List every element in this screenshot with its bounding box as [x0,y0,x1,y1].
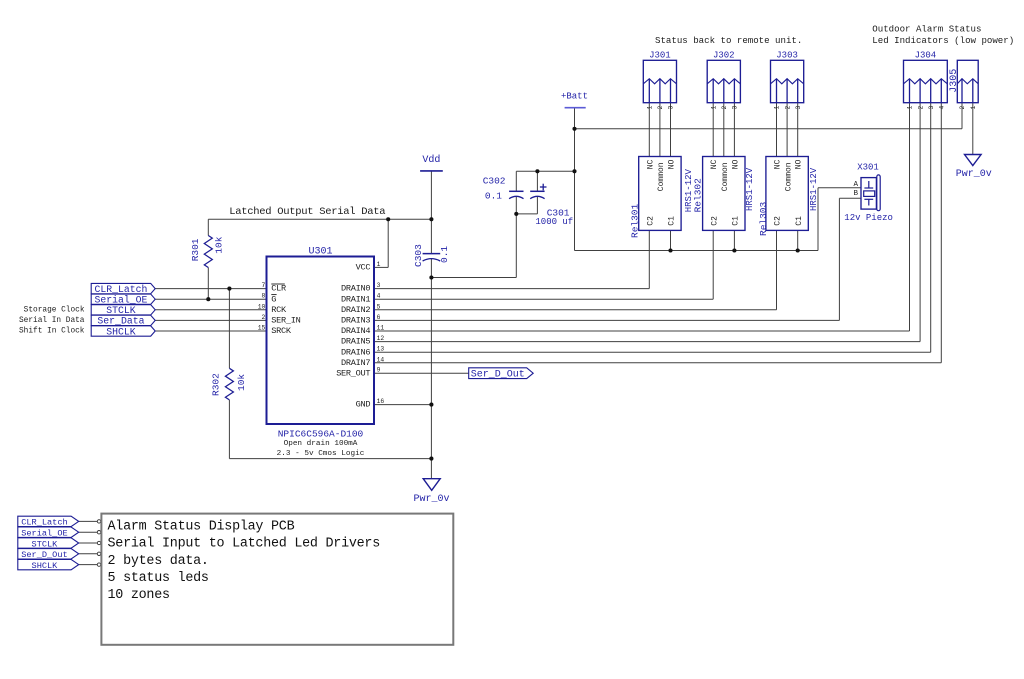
svg-text:STCLK: STCLK [32,539,59,549]
svg-text:16: 16 [377,398,385,405]
svg-text:NO: NO [795,159,804,169]
svg-text:G: G [271,294,276,304]
svg-text:R301: R301 [190,238,201,261]
svg-text:R302: R302 [210,373,221,396]
svg-text:3: 3 [928,106,935,110]
svg-text:NO: NO [668,159,677,169]
svg-text:2.3 - 5v Cmos Logic: 2.3 - 5v Cmos Logic [277,450,365,458]
svg-text:DRAIN2: DRAIN2 [341,305,370,315]
svg-text:2: 2 [917,106,924,110]
svg-text:6: 6 [377,314,381,321]
svg-text:C303: C303 [413,244,424,267]
svg-text:8: 8 [262,293,266,300]
svg-text:J303: J303 [776,51,798,61]
svg-text:2: 2 [657,106,664,110]
svg-text:HRS1-12V: HRS1-12V [809,167,819,211]
svg-text:DRAIN7: DRAIN7 [341,358,370,368]
svg-text:12: 12 [377,335,385,342]
svg-text:DRAIN0: DRAIN0 [341,284,370,294]
svg-text:Shift In Clock: Shift In Clock [19,327,85,335]
svg-text:DRAIN3: DRAIN3 [341,316,370,326]
svg-text:Storage Clock: Storage Clock [24,307,85,315]
svg-text:4: 4 [939,106,946,110]
svg-text:2: 2 [262,314,266,321]
svg-text:1: 1 [970,106,977,110]
svg-text:Rel302: Rel302 [692,178,703,213]
svg-text:Common: Common [784,162,793,191]
svg-text:SRCK: SRCK [271,326,292,336]
svg-text:Ser_D_Out: Ser_D_Out [471,370,525,381]
svg-text:SHCLK: SHCLK [106,326,136,337]
svg-text:12v Piezo: 12v Piezo [844,213,893,223]
svg-text:Rel303: Rel303 [758,201,769,236]
svg-text:1: 1 [907,106,914,110]
svg-text:Common: Common [721,162,730,191]
svg-text:Ser_D_Out: Ser_D_Out [21,550,67,560]
svg-text:Led Indicators (low power): Led Indicators (low power) [872,35,1014,46]
svg-text:J304: J304 [915,51,937,61]
svg-text:Rel301: Rel301 [630,203,641,238]
svg-text:Outdoor Alarm Status: Outdoor Alarm Status [872,24,981,35]
svg-text:9: 9 [377,367,381,374]
svg-text:C1: C1 [668,216,677,226]
svg-text:CLR_Latch: CLR_Latch [94,284,147,295]
svg-text:Vdd: Vdd [422,154,440,166]
svg-text:B: B [853,190,858,198]
svg-text:GND: GND [356,400,371,410]
svg-text:SER_OUT: SER_OUT [336,368,370,378]
svg-text:STCLK: STCLK [106,305,136,316]
svg-text:0.1: 0.1 [485,190,502,201]
svg-text:DRAIN1: DRAIN1 [341,294,370,304]
svg-text:HRS1-12V: HRS1-12V [745,167,755,211]
svg-text:1: 1 [710,106,717,110]
svg-text:Pwr_0v: Pwr_0v [956,169,992,180]
svg-text:13: 13 [377,346,385,353]
svg-text:Status back to remote unit.: Status back to remote unit. [655,35,802,46]
svg-text:2: 2 [721,106,728,110]
svg-text:10k: 10k [236,374,247,391]
svg-text:Serial In Data: Serial In Data [19,317,85,325]
svg-text:2 bytes data.: 2 bytes data. [108,554,209,569]
svg-text:11: 11 [377,325,385,332]
svg-text:Latched Output Serial Data: Latched Output Serial Data [229,206,385,218]
svg-text:15: 15 [258,325,266,332]
svg-text:NC: NC [646,159,655,169]
svg-text:7: 7 [262,282,266,289]
svg-text:3: 3 [732,106,739,110]
svg-text:J305: J305 [949,69,960,93]
svg-text:3: 3 [795,106,802,110]
svg-text:DRAIN5: DRAIN5 [341,337,370,347]
svg-text:1000 uf: 1000 uf [535,217,573,227]
svg-text:10k: 10k [214,236,225,253]
svg-text:A: A [853,181,858,189]
svg-text:U301: U301 [308,247,332,258]
svg-text:10 zones: 10 zones [108,588,170,603]
svg-text:Serial_OE: Serial_OE [21,529,67,539]
svg-text:X301: X301 [857,163,879,173]
svg-text:Pwr_0v: Pwr_0v [413,494,449,505]
svg-text:5 status leds: 5 status leds [108,571,209,586]
svg-text:1: 1 [774,106,781,110]
svg-text:Alarm Status Display PCB: Alarm Status Display PCB [108,520,295,535]
svg-text:DRAIN6: DRAIN6 [341,347,370,357]
svg-text:10: 10 [258,303,266,310]
svg-text:C2: C2 [710,216,719,226]
svg-text:3: 3 [377,282,381,289]
svg-text:C1: C1 [732,216,741,226]
svg-text:2: 2 [784,106,791,110]
svg-text:1: 1 [647,106,654,110]
svg-text:5: 5 [377,303,381,310]
svg-text:SER_IN: SER_IN [271,316,300,326]
svg-text:Open drain 100mA: Open drain 100mA [284,440,358,448]
svg-text:C302: C302 [483,176,506,187]
svg-text:Ser_Data: Ser_Data [97,316,144,327]
svg-text:RCK: RCK [271,305,287,315]
svg-text:VCC: VCC [356,263,371,273]
svg-text:Serial_OE: Serial_OE [94,295,147,306]
svg-text:+Batt: +Batt [561,91,588,101]
svg-text:C2: C2 [647,216,656,226]
svg-text:J301: J301 [649,51,671,61]
svg-text:DRAIN4: DRAIN4 [341,326,370,336]
svg-text:0.1: 0.1 [439,246,450,263]
svg-text:C2: C2 [774,216,783,226]
svg-text:NO: NO [731,159,740,169]
svg-text:14: 14 [377,356,385,363]
svg-text:NC: NC [774,159,783,169]
svg-text:Serial Input to Latched Led Dr: Serial Input to Latched Led Drivers [108,537,381,552]
svg-text:SHCLK: SHCLK [32,561,59,571]
svg-text:2: 2 [959,106,966,110]
svg-text:3: 3 [668,106,675,110]
svg-text:NC: NC [710,159,719,169]
svg-text:CLR: CLR [271,284,286,294]
svg-text:1: 1 [377,261,381,268]
svg-text:4: 4 [377,293,381,300]
svg-text:C1: C1 [795,216,804,226]
svg-text:Common: Common [657,162,666,191]
svg-text:NPIC6C596A-D100: NPIC6C596A-D100 [278,429,364,440]
svg-text:CLR_Latch: CLR_Latch [21,518,67,528]
svg-text:J302: J302 [713,51,735,61]
